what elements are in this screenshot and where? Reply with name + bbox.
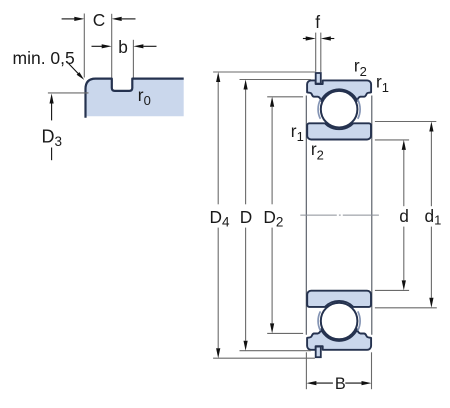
ball top — [321, 91, 358, 128]
leader arrow min 0,5 — [69, 64, 79, 74]
D4 extension top — [213, 71, 315, 73]
B extension line right — [371, 352, 373, 389]
D4 dimension line — [217, 82, 219, 204]
dimension C extension line left — [83, 14, 85, 78]
D2 extension bottom — [267, 332, 303, 334]
raceway crescent right top — [358, 100, 360, 119]
outer ring top — [307, 80, 371, 100]
b arrow right — [143, 45, 156, 47]
f arrow left — [303, 38, 307, 40]
D extension top — [240, 79, 311, 81]
B dimension line left + arrow — [316, 382, 333, 384]
inner ring top — [307, 123, 371, 139]
ring section outline — [86, 79, 184, 118]
ring section fill — [86, 79, 184, 117]
centerline — [300, 214, 379, 216]
svg-text:C: C — [93, 10, 105, 30]
d1 extension top — [375, 121, 436, 123]
b arrow left — [92, 45, 103, 47]
silhouette line left — [305, 96, 307, 335]
d extension bottom — [375, 289, 409, 291]
C arrow right — [122, 18, 136, 20]
outer ring bottom — [307, 329, 371, 349]
svg-text:b: b — [118, 37, 128, 57]
snap ring tab bottom — [316, 347, 321, 358]
D3 level line — [48, 92, 89, 94]
f arrow right — [331, 38, 335, 40]
D dimension line — [245, 90, 247, 205]
D2 extension top — [267, 96, 303, 98]
svg-text:D: D — [240, 207, 252, 227]
inner ring bottom — [307, 291, 371, 307]
B dimension line right + arrow — [345, 382, 361, 384]
raceway crescent left bottom — [318, 311, 320, 330]
f extension line right — [320, 33, 322, 72]
silhouette line right — [371, 96, 373, 335]
D3 stub below label — [51, 148, 53, 161]
svg-text:d: d — [399, 206, 409, 226]
ball bottom — [321, 303, 358, 340]
d extension top — [375, 139, 409, 141]
svg-text:f: f — [315, 12, 320, 32]
svg-text:B: B — [335, 375, 346, 393]
f extension line left — [315, 33, 317, 72]
raceway crescent left top — [318, 100, 320, 119]
snap ring tab top — [316, 73, 321, 84]
D3 arrow — [51, 103, 53, 120]
dimension b extension line right — [132, 40, 134, 78]
d1 dimension line — [430, 132, 432, 207]
raceway crescent right bottom — [358, 311, 360, 330]
D2 dimension line — [271, 107, 273, 205]
C arrow left — [62, 18, 76, 20]
d dimension line — [403, 150, 405, 206]
B extension line left — [305, 352, 307, 389]
dimension C extension line right / b left — [111, 14, 113, 78]
d1 extension bottom — [375, 307, 437, 309]
D extension bottom — [240, 350, 311, 352]
svg-text:min. 0,5: min. 0,5 — [13, 48, 75, 68]
D4 extension bottom — [213, 357, 315, 359]
